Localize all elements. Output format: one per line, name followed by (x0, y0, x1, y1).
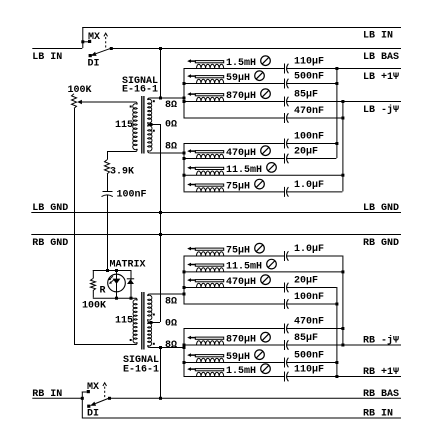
svg-text:100nF: 100nF (294, 292, 324, 303)
svg-text:8Ω: 8Ω (165, 297, 177, 308)
junction bus row2 (183, 82, 186, 85)
capacitor 470nF (bottom row 4') (284, 324, 286, 334)
junction bus 8ohm tap (183, 97, 186, 100)
svg-text:500nF: 500nF (294, 72, 324, 83)
phase dot T2 secondary upper (153, 314, 155, 316)
svg-text:RB IN: RB IN (363, 409, 393, 420)
switch S2 dashed MX-position arrow (104, 387, 106, 398)
resistor R2 3.9K (105, 160, 110, 174)
opto light arrows (110, 276, 113, 279)
svg-text:100K: 100K (82, 301, 106, 312)
junction A row5' (335, 303, 338, 306)
wire filter row 1 (top, L1/C1) (184, 68, 285, 70)
junction matrix top / lamp branch (115, 269, 118, 272)
junction riser on LB BAS (159, 47, 162, 50)
wire switch S1 vertical riser (82, 27, 84, 48)
adjust mark (slashed circle) bottom row 1' (261, 364, 271, 374)
pot R1 wiper arrowhead (77, 100, 82, 104)
junction bus row6 (183, 157, 186, 160)
wire MX contact stub (82, 41, 88, 43)
wire tap riser to LB BAS (160, 48, 162, 98)
wire switch S2 vertical riser (81, 392, 83, 418)
wire filter row 8' (bottom) (184, 255, 285, 257)
wire MATRIX top rail (93, 270, 131, 272)
svg-text:470nF: 470nF (294, 317, 324, 328)
switch S1 contact DI (top) (89, 54, 92, 57)
wire RB IN input stub (left) (32, 397, 82, 399)
capacitor 100nF (top row 5) (284, 139, 286, 149)
wire LB GND rail (31, 212, 401, 214)
adjust mark (slashed circle) row 2 (255, 71, 265, 81)
adjust mark (slashed circle) bottom row 8' (255, 243, 265, 253)
svg-text:8Ω: 8Ω (165, 340, 177, 351)
wire filter row 4' (bottom) (184, 328, 285, 330)
wire pot R1 wiper to transformer primary (81, 101, 136, 103)
wire filter row 8 (top, L6/C7) (184, 191, 285, 193)
transformer T2 primary winding (136, 298, 138, 300)
adjust mark (slashed circle) bottom row 3' (261, 332, 271, 342)
junction S1 riser / MX stub (81, 40, 84, 43)
svg-text:85µF: 85µF (294, 333, 318, 344)
svg-text:470µH: 470µH (226, 148, 256, 159)
wire T2 0ohm centre tap stub (148, 322, 160, 324)
svg-text:0Ω: 0Ω (165, 318, 177, 329)
wire T2 8ohm upper tap (150, 293, 184, 295)
svg-text:LB IN: LB IN (32, 52, 62, 63)
junction B row7 (341, 174, 344, 177)
junction matrix bottom / diode (130, 297, 133, 300)
resistor R1 100K pot body (72, 94, 77, 109)
svg-text:500nF: 500nF (294, 351, 324, 362)
phase dot T2 primary (130, 339, 132, 341)
phase dot T1 primary (130, 106, 132, 108)
transformer T2 secondary upper winding (148, 294, 150, 296)
junction bus row7 (183, 174, 186, 177)
wire -jpsi bus B (top) (342, 101, 344, 191)
svg-text:1.5mH: 1.5mH (226, 58, 256, 69)
switch S2 lever arrowhead (90, 402, 96, 406)
wire filter row 1' (bottom) (184, 376, 285, 378)
svg-text:59µH: 59µH (226, 352, 250, 363)
svg-text:LB -jΨ: LB -jΨ (363, 104, 399, 116)
switch S2 pole pivot junction (108, 397, 111, 400)
capacitor 20µF (bottom row 6') (284, 283, 286, 293)
svg-text:RB BAS: RB BAS (363, 389, 399, 400)
capacitor 85µF (top row 3) (284, 97, 286, 107)
diode D1 right branch wire (130, 270, 132, 298)
opto lamp DS1 diode triangle (113, 279, 121, 284)
svg-text:11.5mH: 11.5mH (226, 165, 262, 176)
capacitor 110µF (bottom row 1') (284, 372, 286, 382)
wire -jpsi bus B (bottom) (342, 256, 344, 345)
svg-text:MX: MX (87, 382, 99, 393)
junction bus 8ohm bottom tap (183, 152, 186, 155)
wire C9 down through grounds to MATRIX (107, 195, 109, 270)
wire filter bus lower group (top half) (183, 143, 185, 191)
svg-text:100nF: 100nF (117, 190, 147, 201)
svg-text:RB IN: RB IN (32, 389, 62, 400)
svg-text:LB GND: LB GND (32, 203, 68, 214)
opto lamp DS1 branch wire (116, 270, 118, 298)
wire filter row 3' (bottom) (184, 344, 285, 346)
wire RB IN rail (82, 417, 401, 419)
junction A row1' (335, 375, 338, 378)
wire T1 primary bottom lead (107, 151, 137, 153)
transformer T1 secondary lower winding (148, 125, 150, 127)
switch S2 contact DI (87, 405, 90, 408)
wire +1psi bus A (bottom) (336, 287, 338, 376)
junction bus row2' (183, 361, 186, 364)
junction matrix bottom / lamp (115, 297, 118, 300)
adjust mark (slashed circle) row 7 (267, 163, 277, 173)
wire filter row 3 (top, L3/C3) (184, 101, 285, 103)
svg-text:8Ω: 8Ω (165, 100, 177, 111)
svg-text:110µF: 110µF (294, 57, 324, 68)
svg-text:20µF: 20µF (294, 147, 318, 158)
inductor L1 1.5mH (top row 1) (197, 64, 224, 68)
junction 0ohm on LB GND (159, 211, 162, 214)
adjust mark (slashed circle) row 3 (261, 89, 271, 99)
wire T2 8ohm lower tap (150, 347, 184, 349)
wire MATRIX feed from RB GND (107, 234, 109, 270)
svg-text:RB -jΨ: RB -jΨ (363, 335, 399, 347)
wire filter row 2 (top, L2/C2) (184, 83, 285, 85)
switch S1 pole pivot junction (110, 47, 113, 50)
switch S1 lever arrowhead (91, 52, 97, 56)
inductor 470µH (bottom row 6') (197, 283, 224, 287)
phase dot T2 secondary lower (153, 343, 155, 345)
junction 0ohm tap on winding (150, 123, 153, 126)
junction B row4 (341, 117, 344, 120)
svg-text:8Ω: 8Ω (165, 141, 177, 152)
svg-text:LB GND: LB GND (363, 203, 399, 214)
transformer T2 core (141, 292, 143, 350)
wire filter bus BAS group (bottom half) (183, 328, 185, 376)
switch S2 lever arm (95, 398, 109, 404)
svg-text:1.0µF: 1.0µF (294, 180, 324, 191)
wire filter row 6' (bottom) (184, 287, 285, 289)
wire pot R1 bottom long vertical (to bottom primary) (74, 108, 76, 344)
inductor L4 470µH (top row 6) (197, 154, 224, 158)
wire filter bus upper group (top half) (183, 68, 185, 118)
wire +1psi bus A (top) (336, 68, 338, 158)
svg-text:RB GND: RB GND (363, 238, 399, 249)
diode D1 bar (127, 278, 134, 280)
junction bus T2 upper tap (183, 293, 186, 296)
junction tap/riser (159, 97, 162, 100)
capacitor C9 100nF (103, 191, 113, 193)
junction bus row3 (183, 100, 186, 103)
switch S1 dashed MX-position arrow (105, 37, 107, 48)
svg-text:E-16-1: E-16-1 (123, 365, 159, 376)
adjust mark (slashed circle) bottom row 6' (261, 275, 271, 285)
svg-text:LB +1Ψ: LB +1Ψ (363, 72, 399, 83)
svg-text:3.9K: 3.9K (110, 167, 134, 178)
wire filter row 2' (bottom) (184, 362, 285, 364)
svg-text:75µH: 75µH (226, 182, 250, 193)
wire filter row 7 (top, L5) (184, 174, 343, 176)
resistor R3 (LDR) left branch (92, 270, 94, 279)
svg-text:470nF: 470nF (294, 106, 324, 117)
svg-text:100K: 100K (68, 85, 92, 96)
wire filter row 6 (top, L4/C6) (184, 158, 285, 160)
wire filter row 5 (top, C5) (184, 143, 285, 145)
svg-text:LB BAS: LB BAS (363, 52, 399, 63)
junction B row3 (341, 100, 344, 103)
svg-text:11.5mH: 11.5mH (226, 262, 262, 273)
svg-text:470µH: 470µH (226, 277, 256, 288)
adjust mark (slashed circle) row 1 (261, 56, 271, 66)
adjust mark (slashed circle) row 6 (261, 146, 271, 156)
wire filter row 5' (bottom) (184, 303, 285, 305)
adjust mark (slashed circle) bottom row 7' (267, 259, 277, 269)
junction matrix top / feed (106, 269, 109, 272)
inductor L3 870µH (top row 3) (197, 97, 224, 101)
svg-text:100nF: 100nF (294, 132, 324, 143)
opto lamp DS1 circle (108, 274, 126, 292)
junction A row5 (335, 142, 338, 145)
switch S1 contact MX (top) (88, 40, 91, 43)
svg-text:115: 115 (115, 120, 133, 131)
capacitor 1.0µF (top row 8) (284, 187, 286, 197)
wire 0ohm net vertical (both transformers / grounds) (160, 124, 162, 322)
inductor 870µH (bottom row 3') (197, 341, 224, 345)
svg-text:MX: MX (88, 32, 100, 43)
svg-text:115: 115 (115, 316, 133, 327)
junction B row4' (341, 327, 344, 330)
svg-text:DI: DI (88, 58, 100, 69)
junction riser on RB BAS (159, 397, 162, 400)
transformer T1 secondary upper winding (148, 98, 150, 100)
capacitor 85µF (bottom row 3') (284, 340, 286, 350)
wire RB BAS rail (net RB BAS) (109, 397, 401, 399)
svg-text:110µF: 110µF (294, 365, 324, 376)
svg-text:1.0µF: 1.0µF (294, 244, 324, 255)
svg-text:R: R (100, 286, 106, 297)
junction RB input / switch riser (81, 397, 84, 400)
junction 0ohm on RB GND (159, 233, 162, 236)
transformer T1 primary winding 115 (136, 102, 138, 104)
svg-text:870µH: 870µH (226, 91, 256, 102)
svg-text:85µF: 85µF (294, 90, 318, 101)
wire T1 8ohm bottom tap (150, 152, 184, 154)
inductor 59µH (bottom row 2') (197, 358, 224, 362)
wire MATRIX bottom rail (93, 297, 137, 299)
junction bus row7' (183, 270, 186, 273)
diode D1 triangle (127, 279, 134, 284)
junction B row7' (341, 270, 344, 273)
switch S2 contact MX (87, 390, 90, 393)
junction bus row3' (183, 344, 186, 347)
capacitor 500nF (bottom row 2') (284, 358, 286, 368)
wire LB IN rail (net LB IN, top) (82, 27, 401, 29)
junction 0ohm tap on T2 winding (150, 321, 153, 324)
phase dot T1 secondary upper (153, 100, 155, 102)
capacitor 110µF (top row 1) (284, 64, 286, 74)
transformer T2 secondary lower winding (148, 322, 150, 324)
junction A row2 (335, 82, 338, 85)
inductor L2 59µH (top row 2) (197, 79, 224, 83)
capacitor 1.0µF (bottom row 8') (284, 251, 286, 261)
capacitor 470nF (top row 4) (284, 113, 286, 123)
wire MX contact stub (bottom) (82, 391, 87, 393)
junction A row2' (335, 361, 338, 364)
inductor 11.5mH (bottom row 7') (197, 268, 224, 272)
svg-text:59µH: 59µH (226, 73, 250, 84)
svg-text:MATRIX: MATRIX (110, 260, 146, 271)
svg-text:DI: DI (87, 409, 99, 420)
inductor L5 11.5mH (top row 7) (197, 171, 224, 175)
wire filter bus GND-side group (bottom half) (183, 256, 185, 304)
svg-text:RB GND: RB GND (32, 238, 68, 249)
wire T1 0ohm centre tap stub (148, 124, 160, 126)
svg-text:870µH: 870µH (226, 335, 256, 346)
inductor 1.5mH (bottom row 1') (197, 372, 224, 376)
junction B row3' (341, 344, 344, 347)
junction bus T2 lower tap (183, 346, 186, 349)
junction T2 tap/riser (159, 346, 162, 349)
wire T1 8ohm top tap (150, 97, 184, 99)
svg-text:20µF: 20µF (294, 276, 318, 287)
inductor L6 75µH (top row 8) (197, 188, 224, 192)
capacitor 20µF (top row 6) (284, 154, 286, 164)
switch S1 lever arm (96, 48, 111, 53)
wire LB BAS rail (net LB BAS) (111, 48, 401, 50)
adjust mark (slashed circle) row 8 (255, 179, 265, 189)
svg-text:RB +1Ψ: RB +1Ψ (363, 367, 399, 378)
junction bus row6' (183, 286, 186, 289)
svg-text:75µH: 75µH (226, 246, 250, 257)
transformer T1 core (141, 96, 143, 154)
wire LB IN input stub (left) (32, 48, 82, 50)
wire filter row 4 (top, C4) (184, 117, 285, 119)
wire RB GND rail (31, 234, 401, 236)
wire T2 tap riser to RB BAS (160, 347, 162, 398)
inductor 75µH (bottom row 8') (197, 252, 224, 256)
phase dot T1 secondary lower (153, 130, 155, 132)
capacitor 100nF (bottom row 5') (284, 299, 286, 309)
wire R2 to C9 (107, 174, 109, 192)
junction A row1 (335, 67, 338, 70)
svg-text:E-16-1: E-16-1 (122, 85, 158, 96)
svg-text:1.5mH: 1.5mH (226, 366, 256, 377)
capacitor 500nF (top row 2) (284, 79, 286, 89)
svg-text:LB IN: LB IN (363, 31, 393, 42)
wire filter row 7' (bottom) (184, 271, 343, 273)
adjust mark (slashed circle) bottom row 2' (255, 350, 265, 360)
svg-text:0Ω: 0Ω (165, 119, 177, 130)
